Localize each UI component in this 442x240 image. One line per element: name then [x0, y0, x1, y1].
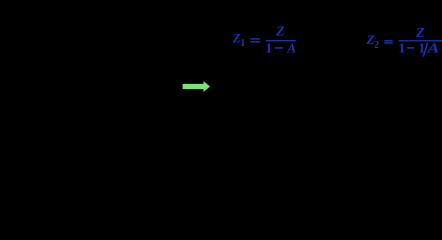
- svg-text:A: A: [286, 41, 296, 56]
- svg-text:Z: Z: [84, 11, 91, 25]
- wire: node B to output terminal of left circuit: [128, 86, 164, 88]
- ground (below Z1): [262, 125, 282, 144]
- impedance Z (bridging element, left circuit): [66, 11, 110, 39]
- wire: amplifier output to node D: [352, 86, 404, 88]
- op-amp A1 (amplifier with gain A, left circuit): [62, 72, 114, 102]
- impedance Z2 (Miller output impedance, right circuit): [397, 95, 411, 125]
- wire: node A up to impedance Z: [48, 32, 66, 87]
- svg-text:1: 1: [240, 38, 245, 49]
- svg-text:A: A: [321, 81, 330, 95]
- value label: equation Z1 = Z/(1-A) (blue): [232, 25, 296, 57]
- wire: impedance Z to node B: [110, 32, 128, 87]
- svg-text:1: 1: [265, 42, 272, 57]
- arrow: green transformation arrow between the two equivalent circuits: [183, 81, 210, 92]
- svg-text:A: A: [426, 42, 439, 57]
- wire: node A to amplifier input: [48, 86, 62, 88]
- wire: node D to output terminal of right circuit: [404, 86, 436, 88]
- svg-text:Z: Z: [415, 26, 425, 41]
- impedance Z1 (Miller input impedance, right circuit): [265, 95, 279, 125]
- wire: amplifier output to node B: [114, 86, 128, 88]
- wire: right circuit input top wire: [236, 86, 272, 88]
- wire: node C to amplifier input: [272, 86, 300, 88]
- svg-text:1: 1: [398, 42, 405, 57]
- node A (input node V1 of left circuit): [46, 85, 50, 89]
- svg-text:2: 2: [154, 78, 158, 87]
- node C (input node of right equivalent circuit): [270, 85, 274, 89]
- ground (left circuit): [76, 102, 100, 138]
- svg-text:2: 2: [374, 40, 379, 51]
- wire: node C down to impedance Z1: [271, 87, 273, 95]
- svg-text:A: A: [83, 81, 92, 95]
- label V1 (left circuit input voltage): [18, 73, 30, 87]
- op-amp A2 (amplifier with gain A, right circuit): [300, 72, 352, 102]
- wire: left circuit input top wire from V1 terminal to node A: [12, 86, 48, 88]
- ground (below Z2): [394, 125, 414, 144]
- svg-text:1: 1: [26, 78, 30, 87]
- value label: equation Z2 = Z/(1-1/A) (blue): [366, 26, 442, 57]
- label V2 (left circuit output voltage): [146, 73, 158, 87]
- node D (output node of right equivalent circuit): [402, 85, 406, 89]
- node B (output node V2 of left circuit): [126, 85, 130, 89]
- wire: node D down to impedance Z2: [403, 87, 405, 95]
- svg-text:Z: Z: [275, 25, 285, 40]
